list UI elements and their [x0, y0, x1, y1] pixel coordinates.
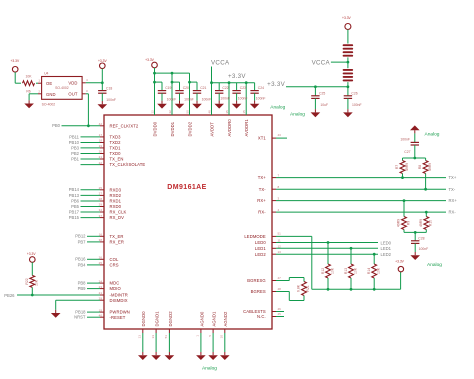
svg-text:C21: C21 [200, 86, 206, 90]
svg-text:PB0: PB0 [52, 123, 61, 128]
svg-text:RX_DV: RX_DV [110, 215, 125, 220]
ground (AGND0) [196, 352, 206, 360]
Analog net label (TX termination) [425, 131, 440, 137]
wire +3.3V rail [267, 81, 348, 88]
junction node [188, 81, 191, 84]
ground (RX termination) [410, 252, 420, 260]
svg-text:10uF: 10uF [320, 103, 328, 107]
svg-text:29: 29 [99, 203, 103, 207]
svg-text:LED1: LED1 [381, 246, 392, 251]
junction node R7/TX+ [401, 176, 404, 179]
pin DVDD1 vertical wire [171, 73, 173, 115]
pin DGND1 (pin 33) with ground [151, 311, 160, 352]
svg-text:VCCA: VCCA [211, 59, 230, 66]
pin N.C. (pin 45) [257, 312, 284, 319]
svg-text:100nF: 100nF [184, 98, 194, 102]
svg-text:C26: C26 [351, 91, 357, 95]
svg-text:R7: R7 [395, 165, 399, 169]
Analog net label (VCCA filter) [290, 111, 305, 117]
svg-text:51: 51 [164, 335, 168, 339]
pin MDIO (pin 23) with net PB9 [78, 285, 122, 291]
pin RX- (pin 4) with net wire to RX- [258, 208, 456, 215]
ground (C23) [232, 101, 242, 109]
wire rail DVDD [155, 72, 190, 74]
svg-text:Analog: Analog [202, 365, 217, 371]
wire [15, 72, 21, 83]
ground (C24) [250, 101, 260, 109]
svg-text:PB12: PB12 [75, 234, 86, 239]
pin LED0 (pin 11) with net LED0 [255, 239, 392, 246]
svg-text:22: 22 [99, 161, 103, 165]
pin RX_ER (pin 38) with net PB7 [78, 238, 124, 244]
pin CABLESTS (pin 46) [243, 307, 284, 314]
svg-text:XT1: XT1 [258, 136, 267, 141]
resistor R22 10K (PB26 pull-up) [25, 262, 39, 295]
ground (C25) [311, 109, 321, 117]
svg-text:100nF: 100nF [202, 98, 212, 102]
junction node C26 tap [347, 85, 350, 88]
svg-text:RX-: RX- [449, 210, 457, 215]
wire [347, 82, 349, 87]
ground (C19) [157, 101, 167, 109]
capacitor C20 100nF (bypass) [172, 82, 194, 102]
svg-text:Analog: Analog [425, 131, 440, 137]
pin DVDD1 name/number [168, 110, 175, 137]
svg-text:Analog: Analog [290, 111, 305, 117]
svg-text:DISMDIX: DISMDIX [110, 298, 128, 303]
svg-text:MDIO: MDIO [110, 286, 122, 291]
svg-text:11: 11 [278, 239, 281, 243]
svg-text:+3.3V: +3.3V [98, 59, 108, 63]
svg-text:RX+: RX+ [449, 198, 458, 203]
svg-text:PB15: PB15 [69, 215, 80, 220]
svg-text:20: 20 [99, 150, 103, 154]
svg-text:LED2: LED2 [381, 252, 392, 257]
svg-text:49R9: 49R9 [405, 163, 409, 171]
capacitor C27 100nF [400, 133, 419, 158]
svg-text:DGND2: DGND2 [168, 311, 173, 327]
ground (oscillator GND) [24, 100, 34, 108]
pin RX_DV (pin 37) with net PB15 [69, 214, 124, 220]
svg-text:VDD: VDD [68, 80, 77, 85]
svg-text:+3.3V: +3.3V [145, 58, 155, 62]
svg-text:AVDDR0: AVDDR0 [227, 119, 232, 137]
svg-text:RX+: RX+ [257, 198, 266, 203]
svg-text:C20: C20 [183, 86, 189, 90]
junction node R10/RX- [425, 211, 428, 214]
svg-text:42: 42 [99, 122, 103, 126]
svg-text:Analog: Analog [270, 105, 285, 111]
svg-text:10K: 10K [353, 267, 357, 274]
svg-text:R21: R21 [306, 285, 310, 291]
svg-text:RXD0: RXD0 [110, 204, 122, 209]
svg-text:10K: 10K [377, 267, 381, 274]
svg-text:49R9: 49R9 [419, 219, 423, 227]
svg-text:40: 40 [99, 313, 103, 317]
junction node [228, 81, 231, 84]
pin RXD3 (pin 25) with net PB14 [69, 186, 122, 192]
resistor R14 10K (LED pull-up) [367, 254, 380, 289]
svg-text:LED0: LED0 [255, 240, 266, 245]
svg-text:48: 48 [278, 287, 282, 291]
junction node R8/TX- [424, 188, 427, 191]
pin RX+ (pin 3) with net wire to RX+ [257, 197, 457, 204]
pin RX_CLK (pin 34) with net PB17 [69, 208, 127, 214]
Analog net label (AGND) [202, 365, 217, 371]
oscillator U4 SO-4002 [38, 72, 88, 107]
junction node [171, 81, 174, 84]
svg-text:19: 19 [99, 308, 103, 312]
pin TX- (pin 8) with net wire to TX- [259, 185, 456, 192]
svg-text:PB1: PB1 [71, 156, 80, 161]
supply +3.3V (VCCA filter) [342, 16, 352, 30]
wire [347, 30, 349, 44]
svg-text:100nF: 100nF [256, 97, 266, 101]
svg-text:AGND0: AGND0 [199, 311, 204, 326]
wire pull-up rail to +3.3V [312, 272, 401, 290]
resistor R13 10K (LED pull-up) [344, 248, 357, 289]
svg-text:+3.3V: +3.3V [10, 59, 20, 63]
wire C18 to ground [101, 93, 103, 101]
svg-text:C25: C25 [319, 91, 325, 95]
svg-text:REF_CLK/XT2: REF_CLK/XT2 [110, 123, 139, 128]
svg-text:NRST: NRST [74, 315, 86, 320]
svg-text:PB8: PB8 [78, 281, 87, 286]
svg-text:RX-: RX- [258, 210, 266, 215]
pin RXD0 (pin 29) with net PB5 [71, 203, 122, 209]
junction node on pull-up rail [350, 288, 353, 291]
svg-text:DVDD0: DVDD0 [152, 121, 157, 136]
svg-text:PB16: PB16 [75, 257, 86, 262]
svg-text:100nF: 100nF [419, 247, 429, 251]
capacitor C23 100nF (analog bypass) [232, 83, 247, 101]
svg-text:32: 32 [168, 110, 172, 114]
ground (AGND1) [208, 352, 218, 360]
svg-text:17: 17 [99, 133, 103, 137]
junction node on pull-up rail [327, 288, 330, 291]
svg-text:TX_EN: TX_EN [110, 157, 124, 162]
svg-text:12: 12 [278, 244, 282, 248]
svg-text:RX_ER: RX_ER [110, 240, 124, 245]
svg-text:N.C.: N.C. [257, 314, 266, 319]
pin AVDDT name/number [207, 110, 214, 137]
resistor R6 10K [23, 75, 35, 94]
svg-text:DGND0: DGND0 [141, 311, 146, 327]
svg-text:+3.3V: +3.3V [27, 252, 37, 256]
svg-text:TXD0: TXD0 [110, 151, 122, 156]
pin DGND0 (pin 13) with ground [138, 311, 147, 352]
svg-text:21: 21 [99, 155, 103, 159]
svg-text:48: 48 [207, 110, 211, 114]
junction node LED1 pull-up tap [350, 247, 353, 250]
svg-text:PB3: PB3 [71, 145, 80, 150]
junction node C25 tap [314, 85, 317, 88]
ground (C21) [192, 101, 202, 109]
wire TX termination rail [403, 157, 426, 159]
svg-text:PB10: PB10 [69, 140, 80, 145]
svg-text:R22: R22 [25, 278, 29, 284]
svg-text:PB26: PB26 [4, 293, 15, 298]
svg-text:Analog: Analog [427, 262, 442, 268]
svg-text:TX_ER: TX_ER [110, 234, 124, 239]
svg-text:DVDD2: DVDD2 [187, 121, 192, 136]
wire GND pin to ground [29, 94, 41, 101]
svg-text:R6: R6 [26, 89, 30, 93]
capacitor C25 10uF [311, 87, 328, 109]
svg-text:18: 18 [99, 139, 103, 143]
svg-text:PB7: PB7 [78, 239, 87, 244]
wire +3.3V down to rail [154, 68, 156, 115]
svg-text:35: 35 [225, 110, 229, 114]
pin LED1 (pin 12) with net LED1 [255, 244, 392, 251]
junction node R9/RX+ [403, 199, 406, 202]
pin TXD0 (pin 20) with net PB2 [71, 150, 121, 156]
ground (DGND0) [138, 352, 148, 360]
wire rail AVDD (+3.3V net) [212, 73, 255, 83]
svg-text:GND: GND [46, 92, 56, 97]
svg-text:46: 46 [278, 307, 282, 311]
svg-text:19: 19 [99, 144, 103, 148]
svg-text:43: 43 [278, 133, 282, 137]
svg-text:49R9: 49R9 [397, 219, 401, 227]
svg-text:OE: OE [46, 81, 52, 86]
svg-text:15: 15 [242, 110, 246, 114]
capacitor C28 100nF [411, 232, 428, 252]
IC U1 DM9161AE body [104, 115, 272, 329]
ground (C22) [214, 101, 224, 109]
pin TXD1 (pin 19) with net PB3 [71, 144, 121, 150]
wire RX termination rail [404, 231, 426, 233]
svg-text:R8: R8 [418, 165, 422, 169]
svg-text:MDC: MDC [110, 281, 120, 286]
svg-text:100nF: 100nF [400, 137, 410, 141]
ground (C20) [175, 101, 185, 109]
svg-text:26: 26 [99, 256, 103, 260]
svg-text:PB4: PB4 [78, 262, 87, 267]
pin CRS (pin 25) with net PB4 [78, 261, 119, 267]
svg-text:CRS: CRS [110, 263, 119, 268]
pin TX_EN (pin 21) with net PB1 [71, 155, 123, 161]
svg-text:-RESET: -RESET [110, 315, 126, 320]
svg-text:C28: C28 [418, 236, 424, 240]
supply +3.3V (oscillator VDD) [98, 59, 108, 69]
svg-text:PB17: PB17 [69, 209, 80, 214]
svg-text:U4: U4 [44, 72, 48, 76]
pin RXD1 (pin 28) with net PB6 [71, 197, 122, 203]
svg-text:AVDDT: AVDDT [209, 122, 214, 137]
svg-text:SO-4002: SO-4002 [42, 103, 56, 107]
pin RXD2 (pin 27) with net PB13 [69, 192, 122, 198]
svg-text:45: 45 [278, 312, 282, 316]
svg-text:COL: COL [110, 257, 119, 262]
pin AVDDR1 vertical wire [245, 83, 247, 115]
svg-text:RX_CLK: RX_CLK [110, 210, 127, 215]
pin TXD3 (pin 17) with net PB11 [69, 133, 121, 139]
svg-text:PB11: PB11 [69, 134, 80, 139]
pin TXD2 (pin 18) with net PB10 [69, 139, 121, 145]
wire OUT pin to PB0 line [82, 94, 88, 126]
junction node [210, 81, 213, 84]
svg-text:+3.3V: +3.3V [395, 260, 405, 264]
pin TX+ (pin 7) with net wire to TX+ [258, 174, 457, 181]
svg-text:TX+: TX+ [449, 175, 457, 180]
svg-text:RXD1: RXD1 [110, 199, 122, 204]
svg-text:PB13: PB13 [69, 193, 80, 198]
svg-text:10K: 10K [35, 279, 39, 286]
pin DVDD2 name/number [185, 110, 192, 137]
svg-text:SO-4002: SO-4002 [55, 86, 69, 90]
svg-text:R12: R12 [321, 268, 325, 274]
pin AVDDR0 vertical wire [228, 83, 230, 115]
svg-text:6.8K: 6.8K [297, 284, 301, 292]
ground (C18) [98, 101, 108, 109]
svg-text:LED0: LED0 [381, 240, 392, 245]
svg-text:12: 12 [150, 110, 154, 114]
svg-text:13: 13 [278, 250, 282, 254]
supply +3.3V (LED pull-ups) [395, 260, 405, 272]
svg-text:AGND1: AGND1 [212, 311, 217, 326]
inductor L1 (ferrite) [344, 45, 353, 56]
svg-text:TX-: TX- [449, 187, 456, 192]
pin AGND2 (pin 10) with ground [220, 311, 229, 352]
svg-text:51: 51 [278, 231, 282, 235]
svg-text:16: 16 [99, 233, 103, 237]
svg-text:+3.3V: +3.3V [267, 81, 285, 88]
svg-text:+3.3V: +3.3V [342, 16, 352, 20]
svg-text:100nF: 100nF [106, 98, 116, 102]
pin -RESET (pin 40) with net NRST [74, 313, 126, 319]
resistor R8 49R9 (TX-) [418, 158, 432, 189]
svg-text:23: 23 [99, 285, 103, 289]
pin LED2 (pin 13) with net LED2 [255, 250, 392, 257]
ground (DGND2) [165, 352, 175, 360]
ground (DISMDIX strap) [51, 310, 61, 318]
svg-text:TX+: TX+ [258, 175, 267, 180]
svg-text:PB5: PB5 [71, 204, 80, 209]
svg-text:LEDMODE: LEDMODE [244, 234, 266, 239]
junction node [245, 81, 248, 84]
junction node on pull-up rail [373, 288, 376, 291]
pin DVDD0 name/number [150, 110, 157, 137]
Analog net label (cap bank) [270, 105, 285, 111]
pin BGRES (pin 48) [251, 287, 304, 301]
pin AGND0 (pin 1) with ground [196, 311, 205, 352]
supply +3.3V (oscillator enable) [10, 59, 20, 72]
pin DVDD2 vertical wire [189, 73, 191, 115]
svg-text:DGND1: DGND1 [155, 311, 160, 327]
pin COL (pin 26) with net PB16 [75, 256, 119, 262]
svg-text:50: 50 [185, 110, 189, 114]
svg-text:10K: 10K [330, 267, 334, 274]
Analog net label (RX termination) [427, 262, 442, 268]
svg-text:34: 34 [99, 208, 103, 212]
svg-text:+3.3V: +3.3V [228, 73, 246, 80]
svg-text:49R9: 49R9 [428, 163, 432, 171]
pin DGND2 (pin 51) with ground [164, 311, 173, 352]
capacitor C22 100nF (analog bypass) [215, 83, 230, 101]
svg-text:BGRES: BGRES [251, 289, 266, 294]
svg-text:PB14: PB14 [69, 187, 80, 192]
svg-text:10: 10 [220, 335, 224, 339]
ground (DGND1) [151, 352, 161, 360]
junction node [413, 157, 416, 160]
svg-text:TXD3: TXD3 [110, 135, 122, 140]
svg-text:PB6: PB6 [71, 198, 80, 203]
wire R6 to OE pin [36, 82, 42, 84]
svg-text:PB9: PB9 [78, 286, 87, 291]
svg-text:100nF: 100nF [167, 98, 177, 102]
pin AVDDR0 name/number [225, 110, 232, 137]
svg-text:AGND2: AGND2 [223, 311, 228, 326]
junction node LED2 pull-up tap [373, 253, 376, 256]
svg-text:TXD2: TXD2 [110, 140, 122, 145]
ground (TX termination, pointing up) [410, 125, 420, 133]
svg-text:24: 24 [99, 279, 103, 283]
capacitor C21 100nF (bypass) [190, 82, 212, 102]
svg-text:25: 25 [99, 261, 103, 265]
ground (C26) [343, 109, 353, 117]
svg-text:DVDD1: DVDD1 [170, 121, 175, 136]
svg-text:29: 29 [99, 296, 103, 300]
ground (AGND2) [220, 352, 230, 360]
capacitor C26 100nF [344, 87, 362, 109]
svg-text:13: 13 [138, 335, 142, 339]
svg-text:C19: C19 [165, 86, 171, 90]
svg-text:OUT: OUT [68, 92, 77, 97]
svg-text:C18: C18 [106, 86, 112, 90]
junction node LED0 pull-up tap [327, 241, 330, 244]
wire VDD pin to +3.3V [82, 82, 102, 84]
supply +3.3V (PB26 pull-up) [27, 252, 37, 262]
svg-text:100nF: 100nF [238, 97, 248, 101]
pin BGRESG (pin 47) [247, 276, 304, 283]
supply +3.3V (digital bypass bank) [145, 58, 157, 68]
pin XT1 (pin 43) [258, 133, 287, 141]
svg-text:C22: C22 [222, 86, 228, 90]
resistor R7 49R9 (TX+) [395, 158, 409, 178]
pin TX_ER (pin 16) with net PB12 [75, 233, 123, 239]
node VDD junction [101, 81, 104, 84]
pin TX_CLK/ISOLATE (pin 22) with net stub [81, 161, 146, 167]
svg-text:R13: R13 [344, 268, 348, 274]
pin MDC (pin 24) with net PB8 [78, 279, 120, 285]
pin AVDDR1 name/number [242, 110, 249, 137]
pin DISMDIX (pin 29), wire strapped to ground [56, 296, 128, 309]
svg-text:25: 25 [99, 186, 103, 190]
svg-text:RXD2: RXD2 [110, 193, 122, 198]
capacitor C19 100nF (bypass) [155, 82, 177, 102]
junction nodes on DVDD rail [153, 72, 173, 75]
svg-text:47: 47 [278, 276, 282, 280]
svg-text:37: 37 [99, 214, 103, 218]
svg-text:TXD1: TXD1 [110, 146, 122, 151]
svg-text:27: 27 [99, 192, 103, 196]
svg-text:C27: C27 [404, 150, 410, 154]
svg-text:C24: C24 [258, 86, 264, 90]
junction node PB26 [31, 294, 34, 297]
resistor R9 49R9 (RX+) [397, 201, 411, 233]
junction node [153, 81, 156, 84]
svg-text:R9: R9 [406, 221, 410, 225]
svg-text:TX_CLK/ISOLATE: TX_CLK/ISOLATE [110, 162, 146, 167]
svg-text:38: 38 [99, 238, 103, 242]
net VCCA label wire [312, 59, 348, 66]
svg-text:BGRESG: BGRESG [247, 278, 266, 283]
resistor R12 10K (LED pull-up) [321, 243, 334, 290]
svg-text:AVDDR1: AVDDR1 [244, 119, 249, 137]
svg-text:28: 28 [99, 197, 103, 201]
svg-text:LED2: LED2 [255, 252, 266, 257]
